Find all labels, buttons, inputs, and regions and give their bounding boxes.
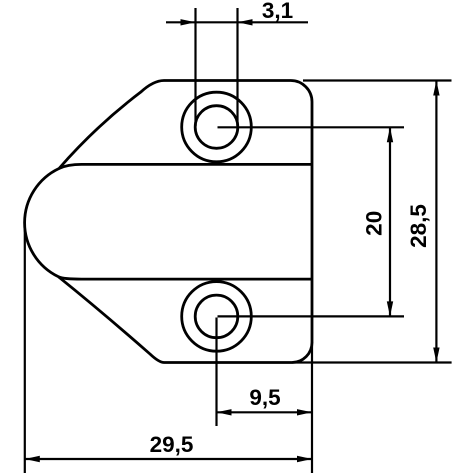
dimension line 20 [389,127,391,316]
svg-text:20: 20 [362,211,387,236]
fold edge upper (inner horizontal line, arc to right edge) [59,164,312,168]
dimension line 9,5 [217,411,313,413]
centerline bottom hole (20) [218,315,405,317]
extension line 3,1 left [194,8,196,126]
arrowhead 29,5 right (points right) [297,456,312,462]
arrowhead 28,5 top (points up) [433,81,439,96]
extension line right edge down (9,5 / 29,5) [311,342,313,473]
arrowhead 9,5 right (points right) [297,409,312,415]
svg-text:29,5: 29,5 [150,432,194,457]
dimension line 3,1 [166,21,308,23]
arrowhead 29,5 left (points left) [25,456,40,462]
centerline bottom hole vertical (9,5) [215,318,217,427]
dimension line 29,5 [25,458,312,460]
arrowhead 20 top (points up) [387,127,393,142]
svg-text:3,1: 3,1 [262,0,293,23]
dimension line 28,5 [435,81,437,363]
hole bottom inner circle [195,295,238,338]
extension line left (29,5) [24,222,26,473]
svg-text:9,5: 9,5 [249,385,280,410]
arrowhead 28,5 bottom (points down) [433,348,439,363]
extension line top edge (28,5) [303,79,452,81]
extension line bottom edge (28,5) [292,361,452,363]
arrowhead 20 bottom (points down) [387,301,393,316]
arrowhead 9,5 left (points left) [217,409,232,415]
extension line 3,1 right [236,8,238,126]
part outline (plate contour) [25,81,312,363]
hole top outer circle [182,92,252,162]
hole bottom outer circle [182,282,252,352]
svg-text:28,5: 28,5 [406,204,431,248]
centerline top hole (20) [218,126,405,128]
fold edge lower (inner horizontal line, arc to right edge) [59,277,313,279]
hole top inner circle [195,106,238,149]
arrowhead 3,1 left (points right) [181,19,196,25]
arrowhead 3,1 right (points left) [238,19,253,25]
